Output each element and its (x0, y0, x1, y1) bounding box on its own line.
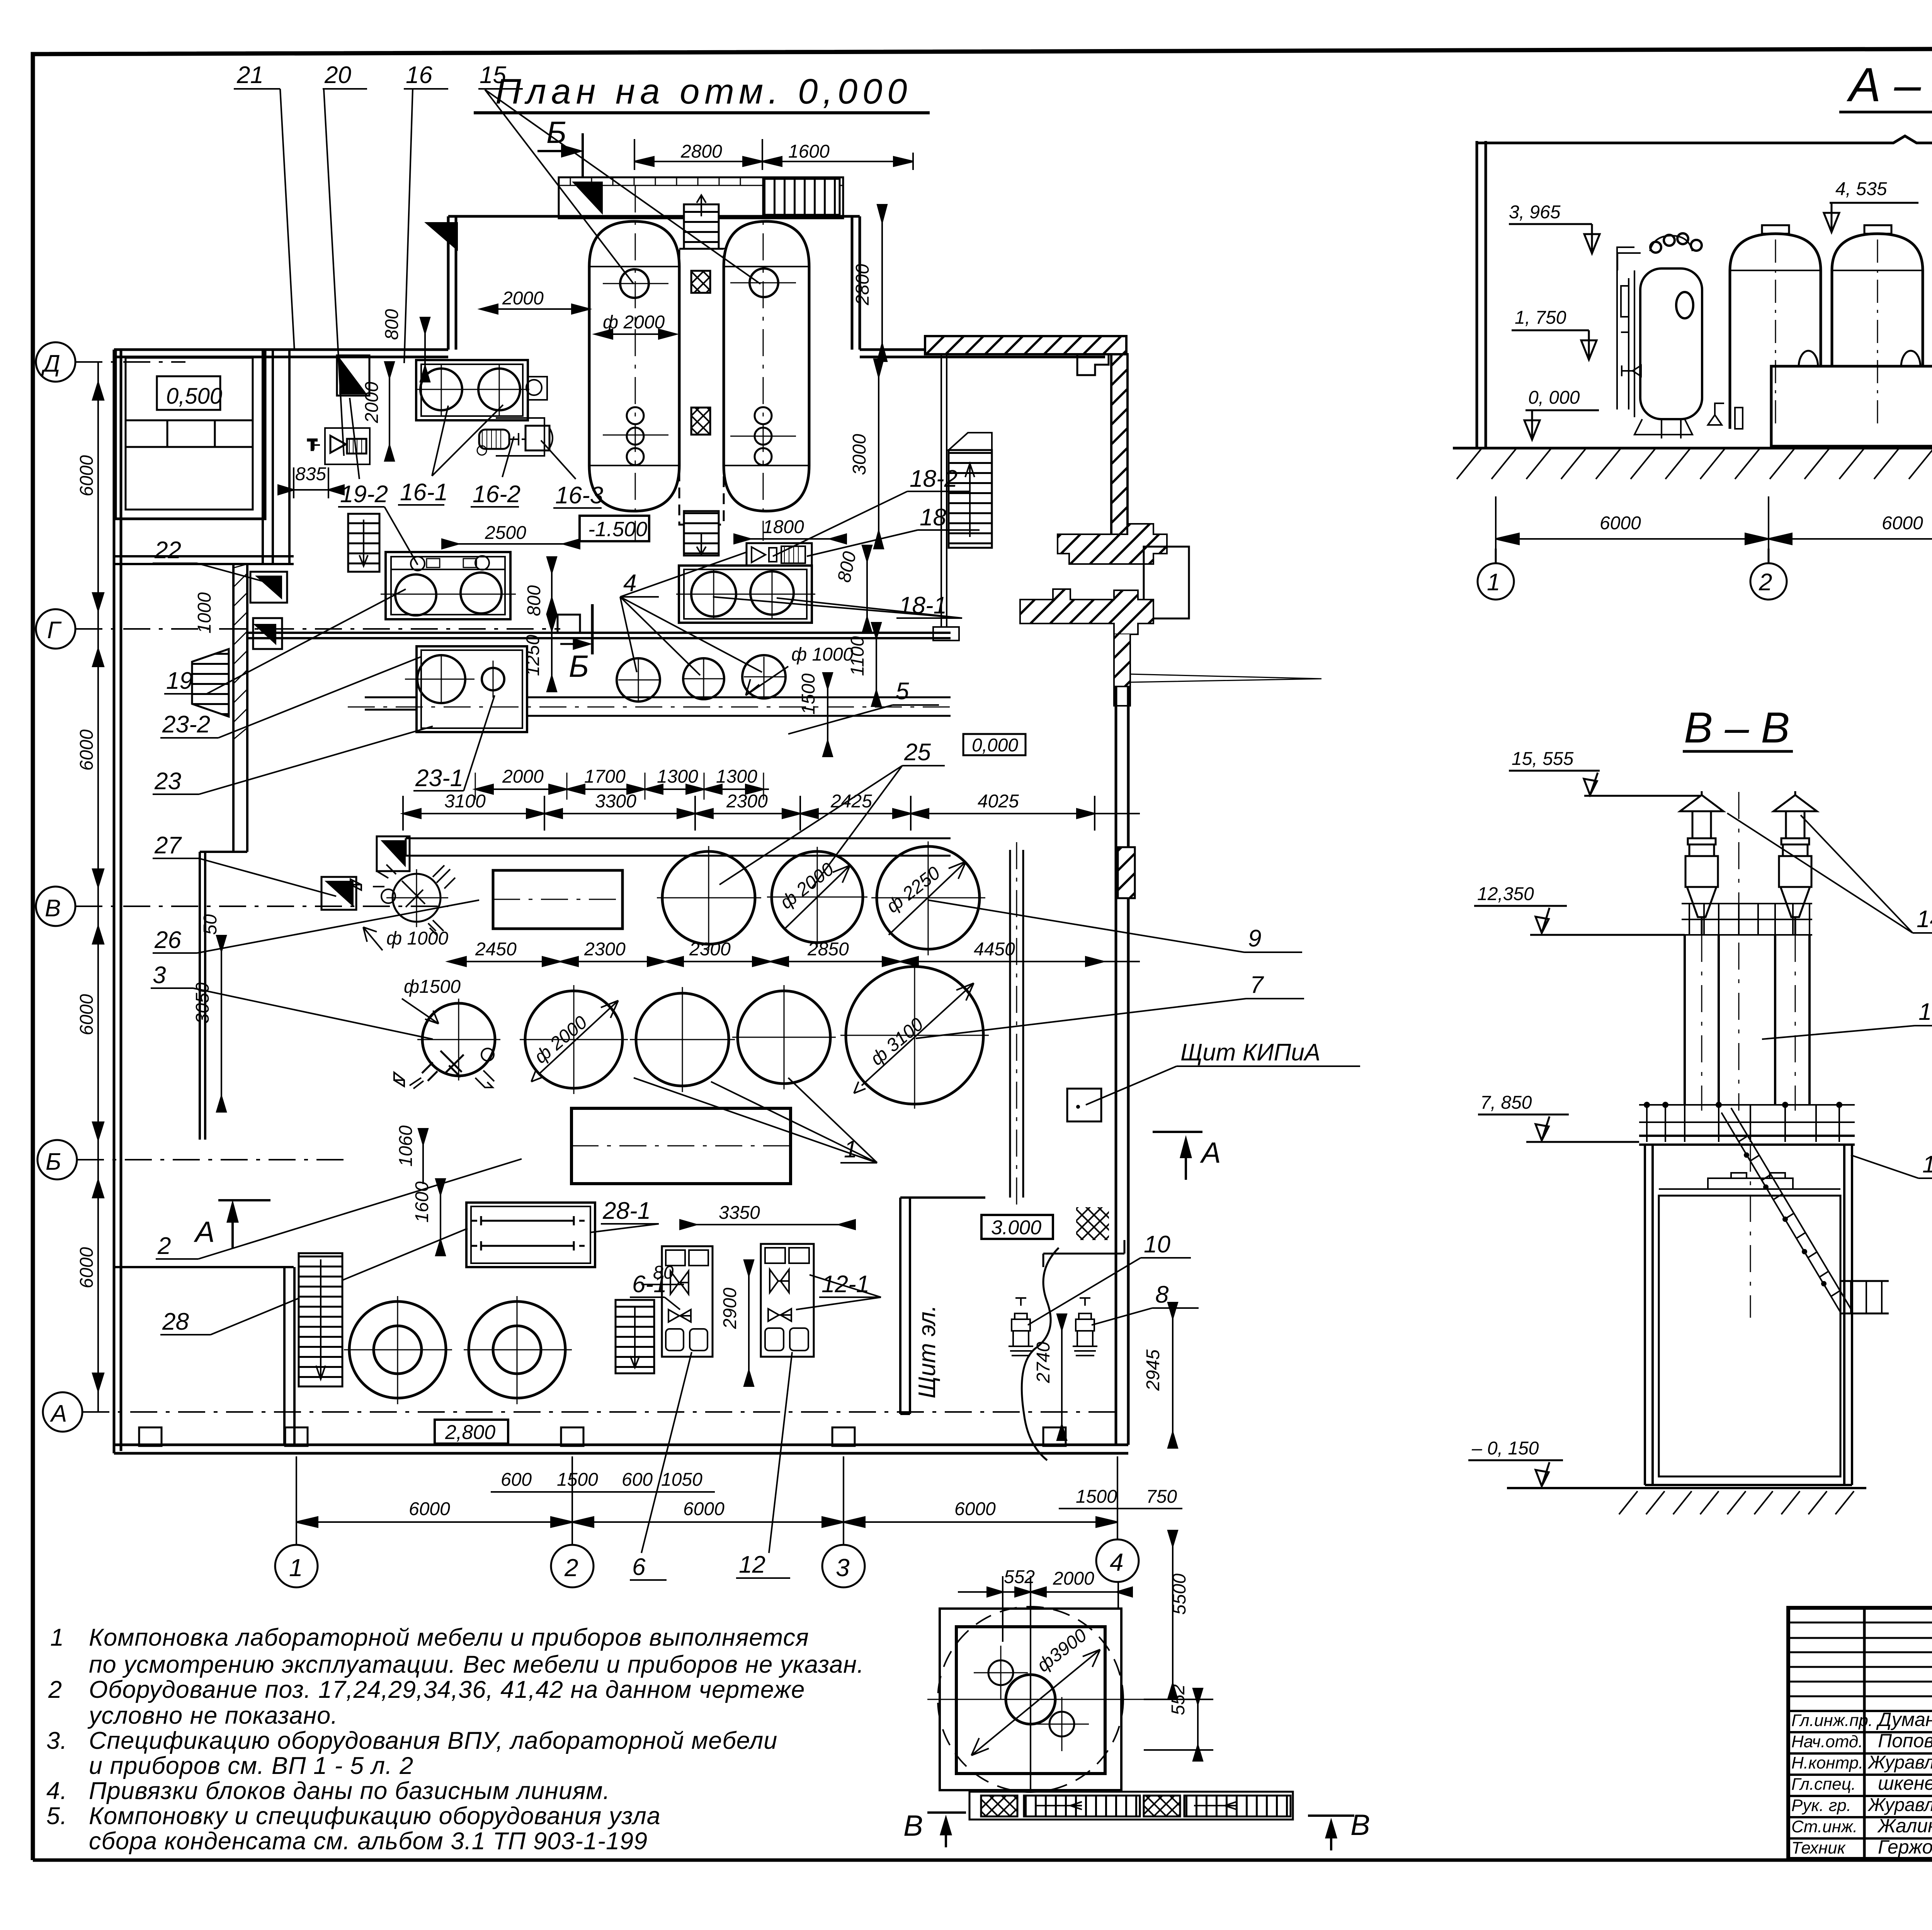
ground hatching (1457, 448, 1932, 479)
svg-text:В: В (45, 895, 61, 922)
svg-text:2000: 2000 (1053, 1568, 1094, 1589)
svg-text:Жалина: Жалина (1877, 1815, 1932, 1837)
svg-text:4.: 4. (46, 1777, 68, 1804)
2,800 box (435, 1420, 508, 1444)
svg-text:1250: 1250 (523, 635, 543, 676)
left stairs (299, 1253, 342, 1386)
svg-text:6000: 6000 (77, 1247, 97, 1288)
pump cluster on ф1500 (394, 1048, 494, 1089)
pumps 10 and 8 (1009, 1298, 1097, 1356)
svg-text:1800: 1800 (763, 517, 804, 537)
small mid stairs (616, 1300, 654, 1373)
filter tank with piping (pos left) (1617, 233, 1724, 438)
svg-text:А – А: А – А (1846, 58, 1932, 112)
svg-text:12,350: 12,350 (1477, 884, 1534, 904)
stair diagonal (1721, 1108, 1889, 1313)
svg-text:26: 26 (154, 927, 181, 953)
floor line (1453, 447, 1932, 450)
labels 19-2 16-1 16-2 16-3 (340, 479, 603, 509)
three circles row y1755 (617, 655, 786, 702)
svg-text:12-1: 12-1 (821, 1271, 869, 1298)
svg-text:Нач.отд.: Нач.отд. (1791, 1732, 1863, 1751)
svg-text:Думан: Думан (1876, 1709, 1932, 1730)
svg-text:Техник: Техник (1791, 1838, 1846, 1857)
svg-text:Б: Б (46, 1148, 61, 1175)
svg-text:7: 7 (1250, 972, 1264, 998)
left column (1477, 141, 1486, 448)
svg-text:Привязки блоков даны по ба: Привязки блоков даны по базисным линиям. (89, 1777, 610, 1804)
three domed tanks (1730, 225, 1932, 429)
svg-text:Т: Т (308, 437, 317, 454)
pump group 12-1 (761, 1244, 814, 1357)
svg-text:2: 2 (48, 1676, 62, 1703)
svg-text:50: 50 (200, 914, 221, 935)
2800/3000 vertical dims right of tanks (874, 205, 887, 549)
two donut tanks (344, 1296, 572, 1404)
svg-text:3350: 3350 (719, 1203, 760, 1223)
svg-text:10: 10 (1144, 1231, 1170, 1258)
svg-text:Гл.инж.пр.: Гл.инж.пр. (1791, 1711, 1873, 1730)
svg-text:2000: 2000 (362, 382, 382, 423)
cable curve (1022, 1248, 1059, 1460)
-1.500 box (580, 516, 649, 541)
svg-text:сбора конденсата см. альбом: сбора конденсата см. альбом 3.1 ТП 903-1… (89, 1828, 648, 1855)
svg-text:– 0, 150: – 0, 150 (1471, 1438, 1539, 1459)
svg-text:А: А (49, 1400, 67, 1427)
svg-text:2300: 2300 (584, 939, 626, 960)
svg-text:6-1: 6-1 (632, 1271, 667, 1298)
svg-text:600: 600 (622, 1470, 653, 1490)
svg-text:Компоновку и спецификацию о: Компоновку и спецификацию оборудования у… (89, 1803, 661, 1830)
svg-text:7, 850: 7, 850 (1480, 1092, 1532, 1113)
svg-text:Гержова: Гержова (1878, 1836, 1932, 1858)
square tank (927, 1607, 1144, 1792)
svg-text:9: 9 (1248, 925, 1261, 952)
svg-text:В: В (903, 1809, 923, 1842)
svg-text:3.000: 3.000 (991, 1216, 1041, 1239)
svg-text:3, 965: 3, 965 (1509, 202, 1561, 223)
svg-text:2900: 2900 (720, 1288, 740, 1329)
svg-text:3050: 3050 (192, 982, 213, 1024)
svg-text:1: 1 (50, 1624, 64, 1651)
svg-text:2850: 2850 (807, 939, 849, 960)
main title block (1788, 1608, 1932, 1859)
black triangles on left wall (255, 576, 282, 600)
svg-text:23-2: 23-2 (162, 711, 210, 738)
svg-text:4450: 4450 (974, 939, 1015, 960)
black flag on wall (339, 357, 367, 394)
platform with railing (1639, 1103, 1855, 1145)
svg-text:600: 600 (501, 1470, 532, 1490)
front platform rectangle (1771, 366, 1932, 446)
А section mark right (1153, 1132, 1202, 1180)
svg-text:6: 6 (632, 1554, 646, 1580)
middle stair column (679, 195, 724, 556)
chimney left (1680, 791, 1723, 935)
svg-text:15: 15 (480, 62, 506, 88)
svg-text:14: 14 (1917, 906, 1932, 933)
labels left column (153, 537, 210, 1335)
corner walls around cable (1043, 1240, 1124, 1267)
svg-text:1500: 1500 (557, 1470, 598, 1490)
long wall y1645 (247, 604, 951, 654)
svg-text:2: 2 (564, 1554, 578, 1582)
svg-text:2: 2 (1759, 569, 1772, 596)
bottom long rect (lab bench) (571, 1108, 791, 1184)
dim row between circle rows (448, 957, 1140, 966)
svg-text:1: 1 (1487, 569, 1500, 596)
A section mark left (218, 1200, 270, 1248)
svg-text:835: 835 (295, 464, 326, 484)
svg-text:3: 3 (153, 962, 166, 989)
bottom walkway (969, 1792, 1293, 1820)
svg-text:2,800: 2,800 (445, 1421, 495, 1444)
svg-text:2800: 2800 (680, 141, 722, 162)
block 18 with pump over (676, 543, 815, 623)
23-2 stairs trapezoid (192, 649, 229, 717)
svg-text:шкене: шкене (1878, 1772, 1932, 1794)
labels 21 20 16 15 (236, 62, 506, 88)
svg-text:Попов: Попов (1878, 1730, 1932, 1752)
svg-text:18: 18 (920, 504, 946, 531)
inner room walls bottom-left (284, 1267, 294, 1445)
svg-text:28: 28 (162, 1308, 189, 1335)
channel lines (348, 697, 951, 716)
svg-text:1060: 1060 (396, 1125, 416, 1167)
chimney right (1774, 791, 1817, 935)
dim row 2000/1700/1300/1300 (475, 773, 769, 800)
corridor hatched walls top right (925, 336, 1135, 898)
svg-text:1600: 1600 (412, 1181, 432, 1223)
svg-text:2450: 2450 (475, 939, 517, 960)
svg-text:1, 750: 1, 750 (1515, 308, 1566, 328)
svg-text:5: 5 (896, 678, 909, 705)
rect left of circles (493, 870, 622, 929)
svg-text:Гл.спец.: Гл.спец. (1791, 1775, 1856, 1794)
svg-text:Спецификацию оборудования ВП: Спецификацию оборудования ВПУ, лаборатор… (89, 1727, 777, 1754)
svg-text:1: 1 (289, 1554, 303, 1582)
svg-text:Ст.инж.: Ст.инж. (1791, 1817, 1857, 1836)
vertical duct lines (1010, 842, 1023, 1205)
svg-text:6000: 6000 (954, 1499, 996, 1519)
block 16 (two circles) (415, 360, 547, 420)
svg-text:19-2: 19-2 (340, 481, 388, 508)
0,000 box and 25 (963, 734, 1026, 755)
svg-text:Б: Б (569, 649, 589, 683)
svg-text:25: 25 (904, 739, 931, 766)
svg-text:16-2: 16-2 (473, 481, 520, 508)
svg-text:ф1500: ф1500 (404, 977, 461, 997)
svg-text:2300: 2300 (689, 939, 731, 960)
svg-text:3.: 3. (46, 1727, 68, 1754)
svg-text:2000: 2000 (502, 766, 544, 787)
svg-text:1500: 1500 (1076, 1487, 1117, 1507)
svg-text:В: В (1350, 1809, 1370, 1842)
svg-text:18-2: 18-2 (910, 466, 957, 492)
upper railing platform (1682, 904, 1812, 935)
svg-text:4: 4 (1110, 1548, 1124, 1576)
svg-text:Журавлева: Журавлева (1867, 1795, 1932, 1815)
22->27 wall area small marks (325, 881, 354, 907)
cross hatch mark (1076, 1207, 1109, 1240)
pump 20 (308, 428, 370, 464)
inner walls top-left (114, 350, 294, 1140)
block 19 lower-left (381, 552, 516, 619)
svg-text:Щит КИПиА: Щит КИПиА (1180, 1039, 1320, 1066)
axis circles (1478, 549, 1932, 600)
svg-text:12: 12 (739, 1551, 765, 1578)
Щит эл. room (900, 1198, 985, 1414)
3.000 box (981, 1215, 1053, 1239)
svg-text:по усмотрению эксплуатации. В: по усмотрению эксплуатации. Вес мебели и… (89, 1651, 864, 1678)
svg-text:Д: Д (41, 350, 60, 377)
svg-text:19: 19 (166, 668, 193, 694)
center dash lines (1776, 240, 1932, 444)
svg-text:2800: 2800 (852, 264, 873, 306)
svg-text:Оборудование поз. 17,24,29,34: Оборудование поз. 17,24,29,34,36, 41,42 … (89, 1676, 805, 1703)
svg-text:В – В: В – В (1684, 703, 1790, 752)
svg-text:28-1: 28-1 (602, 1198, 651, 1224)
svg-text:План на отм. 0,000: План на отм. 0,000 (495, 72, 912, 111)
svg-text:2500: 2500 (485, 523, 526, 543)
pump group 6-1 (662, 1246, 713, 1357)
svg-text:1050: 1050 (661, 1470, 702, 1490)
svg-text:3: 3 (836, 1554, 850, 1582)
pump ф1000 cluster at left (350, 865, 455, 936)
svg-text:Журавлева: Журавлева (1867, 1752, 1932, 1773)
svg-text:23: 23 (154, 768, 181, 795)
svg-text:2: 2 (157, 1233, 171, 1259)
svg-text:6000: 6000 (77, 729, 97, 771)
svg-text:Рук. гр.: Рук. гр. (1791, 1796, 1851, 1815)
svg-text:16-1: 16-1 (400, 479, 448, 506)
svg-text:8: 8 (1155, 1281, 1169, 1308)
svg-text:1300: 1300 (716, 766, 757, 787)
svg-text:6000: 6000 (1882, 513, 1923, 533)
svg-text:Компоновка лабораторной мебе: Компоновка лабораторной мебели и приборо… (89, 1624, 809, 1651)
svg-text:1700: 1700 (584, 766, 626, 787)
svg-text:800: 800 (382, 309, 402, 340)
svg-text:А: А (194, 1216, 215, 1249)
svg-text:1500: 1500 (798, 673, 819, 715)
svg-text:13: 13 (1918, 999, 1932, 1025)
23-1 block (405, 646, 527, 732)
conveyor band above (406, 838, 951, 856)
deaerator columns (1685, 792, 1810, 1111)
svg-text:0, 000: 0, 000 (1528, 387, 1580, 408)
svg-text:5.: 5. (46, 1803, 68, 1830)
svg-text:условно не показано.: условно не показано. (87, 1702, 338, 1729)
left tank (589, 185, 679, 541)
svg-text:6000: 6000 (77, 455, 97, 496)
svg-text:3100: 3100 (444, 791, 486, 812)
ceiling beam (1478, 136, 1932, 143)
svg-text:20: 20 (324, 62, 351, 88)
svg-text:0,500: 0,500 (166, 384, 222, 409)
svg-text:Щит эл.: Щит эл. (914, 1305, 940, 1398)
svg-text:23-1: 23-1 (415, 765, 463, 792)
28-1 heat exchanger (466, 1203, 595, 1267)
svg-text:1100: 1100 (847, 636, 868, 676)
svg-text:4025: 4025 (978, 791, 1019, 812)
svg-text:А: А (1200, 1137, 1221, 1169)
level marks (1509, 203, 1932, 452)
svg-text:4, 535: 4, 535 (1835, 179, 1887, 199)
svg-text:3300: 3300 (595, 791, 636, 812)
svg-text:6000: 6000 (683, 1499, 724, 1519)
platform (559, 177, 843, 218)
svg-text:27: 27 (154, 832, 182, 859)
small dims under pumps (501, 1470, 1177, 1507)
svg-text:11: 11 (1922, 1151, 1932, 1178)
svg-text:15, 555: 15, 555 (1512, 749, 1573, 769)
svg-text:6000: 6000 (77, 994, 97, 1035)
svg-text:2740: 2740 (1033, 1342, 1054, 1383)
svg-text:-1.500: -1.500 (588, 518, 647, 541)
svg-text:1000: 1000 (194, 592, 215, 634)
top circles row (657, 841, 985, 955)
svg-text:1600: 1600 (788, 141, 830, 162)
svg-text:22: 22 (154, 537, 181, 564)
svg-text:3000: 3000 (849, 434, 870, 475)
pumps 16-2/16-3 (477, 418, 553, 456)
svg-text:16-3: 16-3 (555, 482, 603, 509)
svg-text:0,000: 0,000 (972, 735, 1018, 756)
right tank (724, 185, 809, 541)
svg-text:ф 1000: ф 1000 (386, 928, 449, 949)
svg-text:16: 16 (406, 62, 432, 88)
pilaster squares along bottom wall (139, 1427, 1066, 1446)
stairs near block 19 (348, 514, 379, 572)
dims over tanks (634, 139, 913, 170)
svg-text:2000: 2000 (502, 288, 544, 309)
svg-text:6000: 6000 (409, 1499, 450, 1519)
svg-text:750: 750 (1146, 1487, 1177, 1507)
svg-text:21: 21 (236, 62, 264, 88)
svg-text:ф 1000: ф 1000 (791, 644, 854, 665)
svg-text:Г: Г (47, 617, 62, 644)
svg-text:и приборов см. ВП 1 - 5 л.: и приборов см. ВП 1 - 5 л. 2 (89, 1752, 413, 1779)
svg-text:1300: 1300 (657, 766, 698, 787)
entrance assembly right (933, 354, 1321, 706)
svg-text:800: 800 (524, 585, 544, 616)
tank box (1645, 1145, 1852, 1485)
lower circles row (417, 962, 989, 1109)
svg-text:2945: 2945 (1143, 1349, 1163, 1391)
bottom dimension line (1496, 496, 1932, 549)
svg-text:6000: 6000 (1600, 513, 1641, 533)
svg-text:Н.контр.: Н.контр. (1791, 1753, 1863, 1772)
